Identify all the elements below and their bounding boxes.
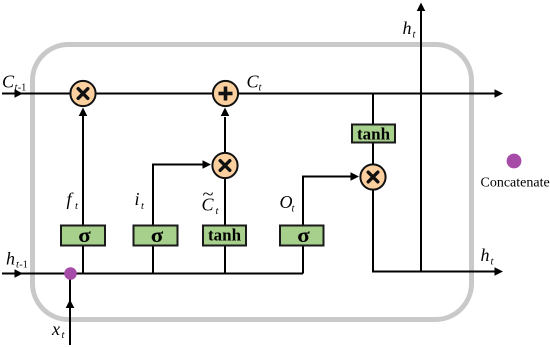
svg-text:-1: -1: [18, 83, 27, 94]
svg-text:h: h: [481, 245, 490, 265]
svg-text:~: ~: [203, 184, 214, 204]
svg-text:t: t: [259, 83, 263, 94]
svg-text:σ: σ: [78, 225, 91, 247]
svg-text:h: h: [403, 18, 412, 38]
svg-text:f: f: [67, 189, 75, 209]
svg-text:tanh: tanh: [357, 125, 391, 144]
svg-text:C: C: [2, 72, 15, 92]
svg-text:h: h: [6, 249, 15, 269]
svg-text:tanh: tanh: [208, 226, 242, 245]
svg-text:x: x: [51, 319, 60, 339]
svg-text:t: t: [491, 257, 495, 268]
svg-text:-1: -1: [19, 260, 28, 271]
svg-text:σ: σ: [151, 225, 164, 247]
svg-text:t: t: [216, 206, 220, 217]
svg-text:i: i: [135, 189, 140, 209]
svg-text:t: t: [292, 204, 296, 215]
svg-text:Concatenate: Concatenate: [481, 176, 550, 191]
svg-text:t: t: [413, 30, 417, 41]
svg-text:σ: σ: [297, 225, 310, 247]
svg-text:t: t: [62, 330, 66, 341]
svg-text:t: t: [75, 201, 79, 212]
svg-text:t: t: [141, 201, 145, 212]
